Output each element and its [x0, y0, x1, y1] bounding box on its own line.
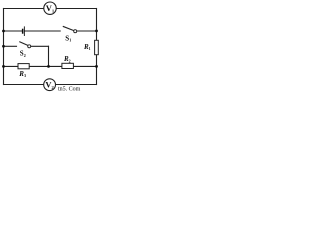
switch S2 blade — [19, 42, 28, 46]
wire S2 branch left — [4, 45, 17, 47]
wire top left segment — [4, 8, 44, 10]
switch S1 blade — [63, 26, 74, 30]
resistor R1 — [95, 40, 99, 54]
switch S1 hinge circle — [74, 30, 77, 33]
wire right rail lower — [96, 55, 98, 85]
switch S2 hinge circle — [28, 45, 31, 48]
wire battery to switch S1 — [25, 30, 61, 32]
battery cell (short thick negative plate) — [22, 29, 24, 34]
node battery-left rail junction — [2, 30, 5, 33]
voltmeter V1 — [44, 2, 56, 14]
node S2-left rail junction — [2, 45, 5, 48]
wire right rail upper — [96, 9, 98, 41]
wire R2 to right rail — [73, 65, 96, 67]
wire top right segment — [56, 8, 96, 10]
svg-text:tn5. Com: tn5. Com — [58, 87, 81, 93]
wire left rail — [3, 9, 5, 85]
wire bottom right segment — [55, 84, 96, 86]
wire S2 to corner — [31, 45, 49, 47]
node R2-right rail junction — [95, 65, 98, 68]
node middle T junction — [47, 65, 50, 68]
resistor R2 — [62, 63, 74, 68]
node R3-left rail junction — [2, 65, 5, 68]
wire switch S1 to right rail — [77, 30, 97, 32]
node S1-right rail junction — [95, 30, 98, 33]
voltmeter V2 — [44, 79, 56, 91]
wire R3 to R2 — [29, 65, 62, 67]
wire middle branch left to R3 — [4, 65, 19, 67]
wire battery branch left — [4, 30, 22, 32]
battery cell (tall thin positive plate) — [23, 26, 26, 36]
wire vertical drop to middle branch — [48, 46, 50, 66]
resistor R3 — [18, 64, 29, 69]
wire bottom left segment — [4, 84, 44, 86]
